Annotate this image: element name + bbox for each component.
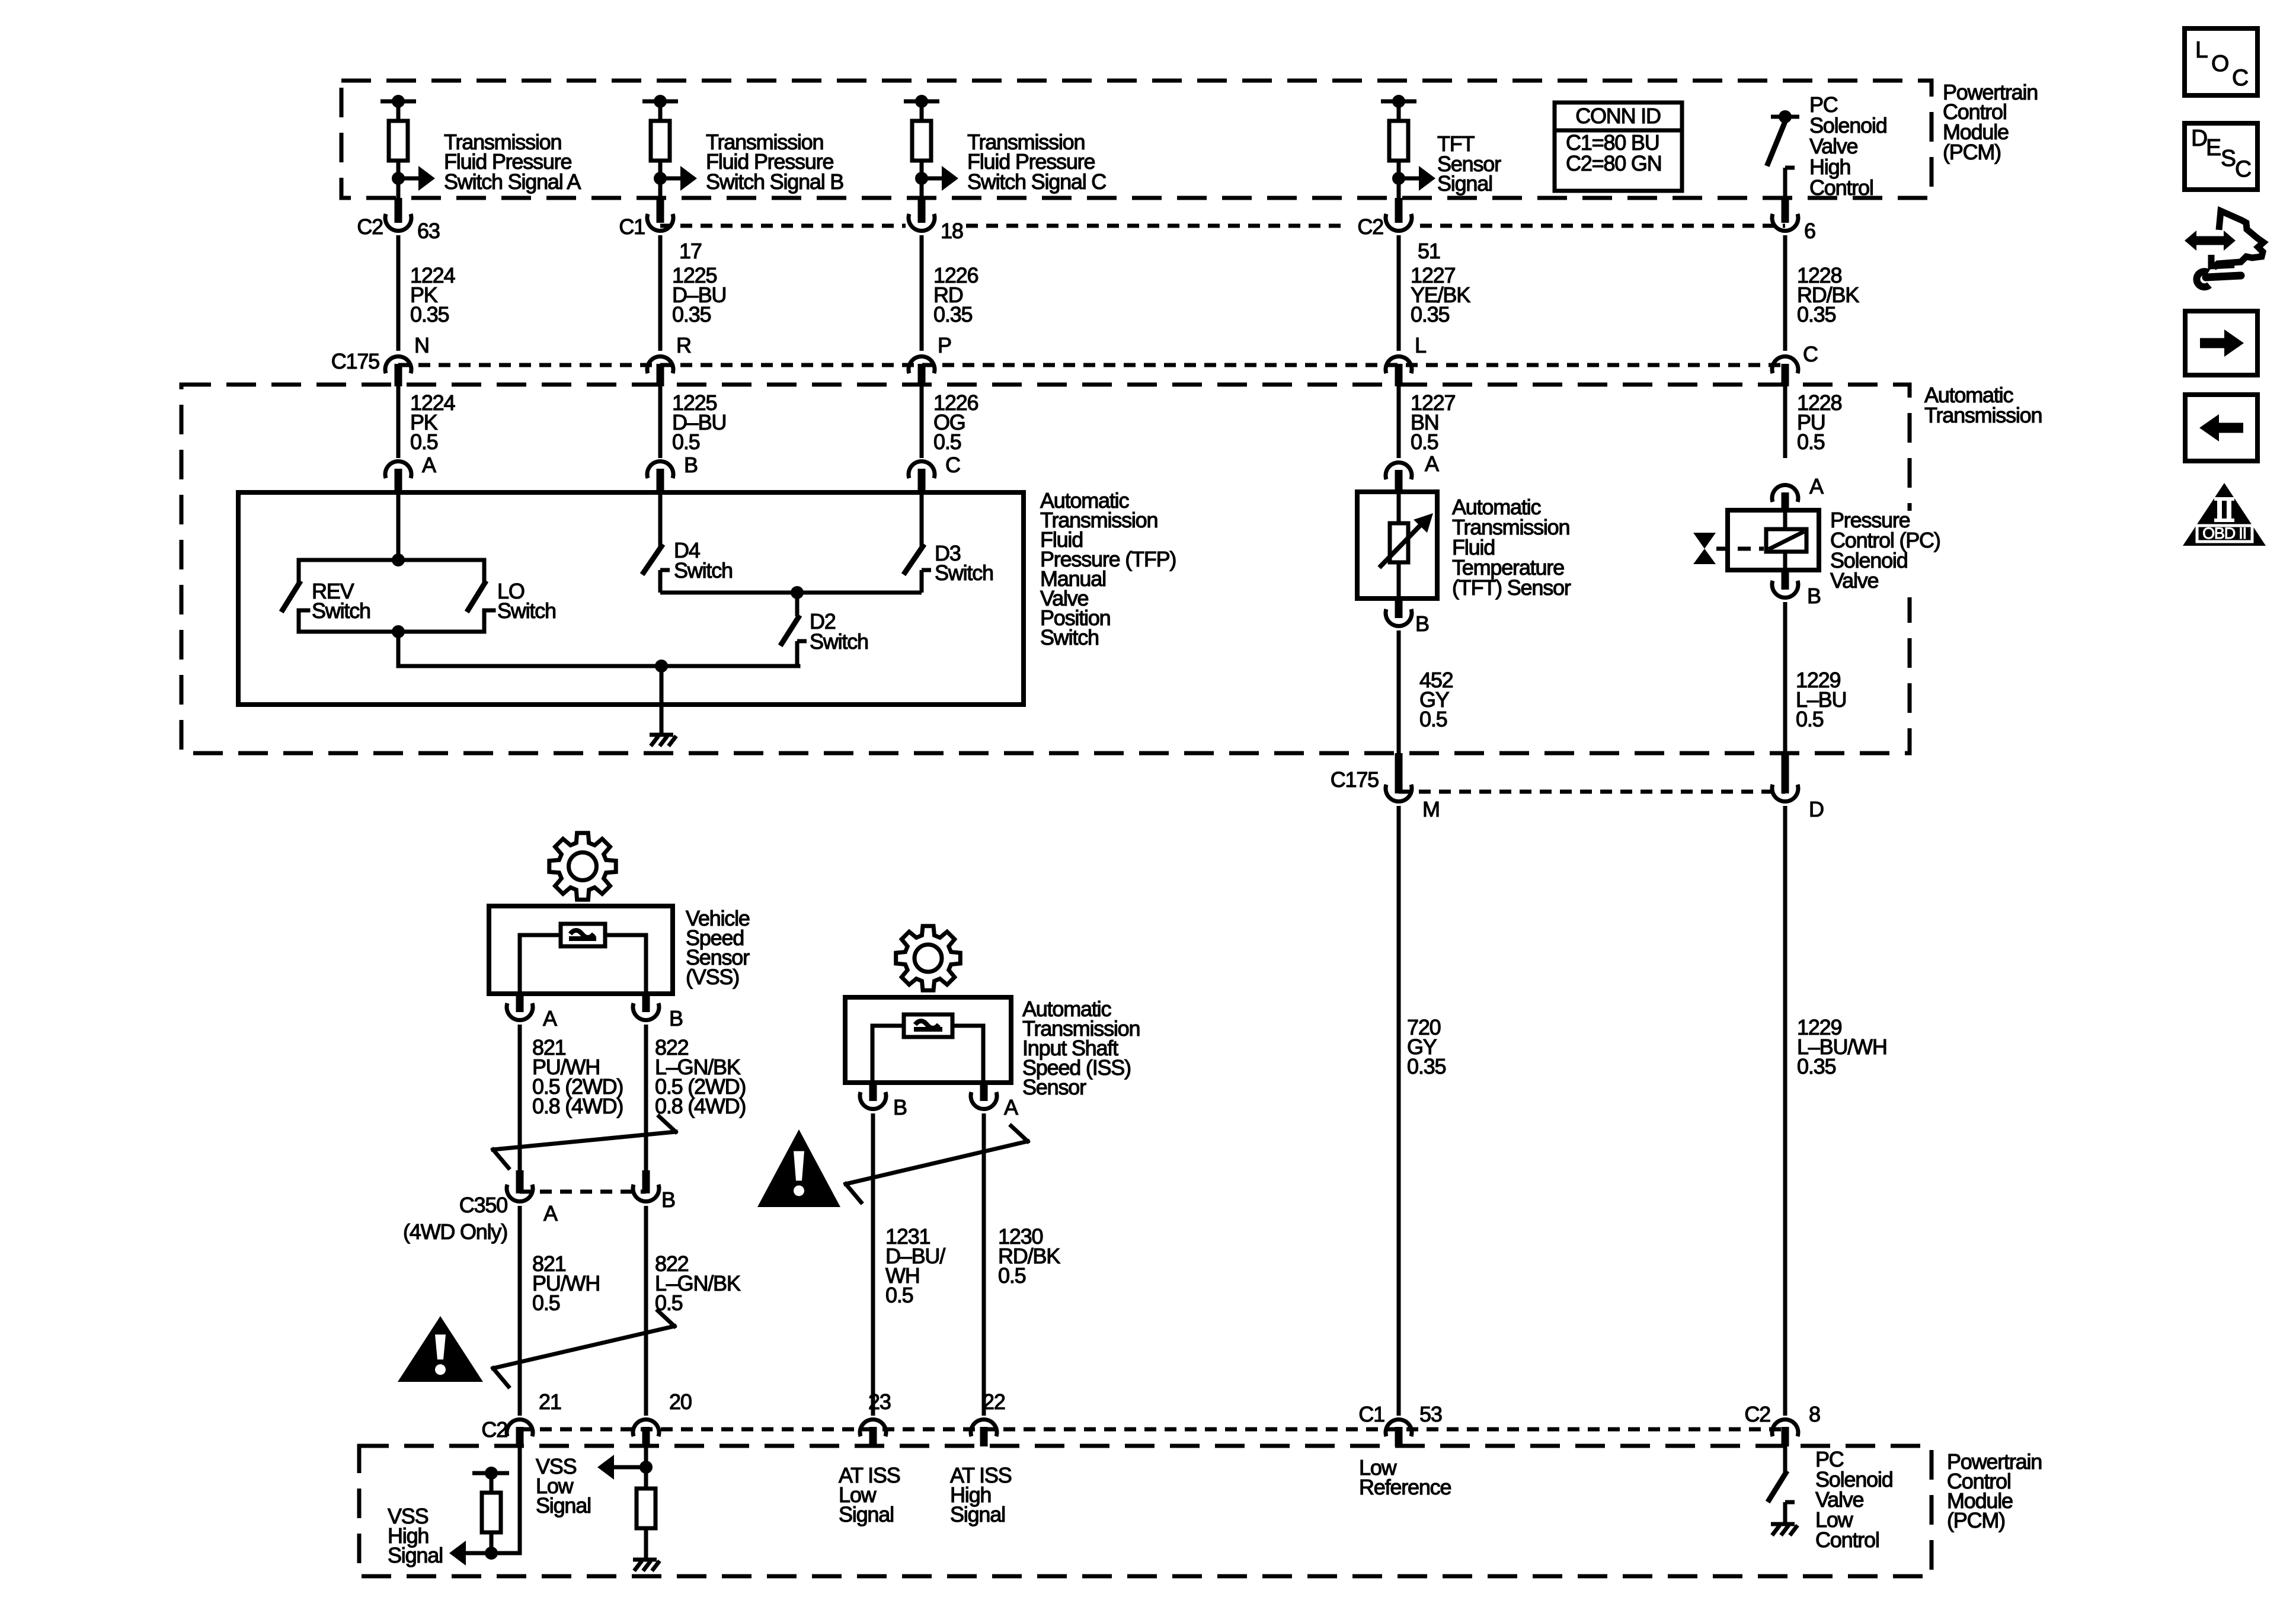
signal arrow TFP switch signal C [915,166,958,191]
icon back arrow box [2185,395,2257,461]
label PC Solenoid Valve Low Control [1815,1447,1893,1552]
PC solenoid high control driver switch [1768,110,1799,198]
signal arrow TFP switch signal A [392,166,435,191]
wire label 1225 D-BU 0.35 [672,263,726,327]
svg-text:C2: C2 [1357,215,1383,239]
svg-text:(4WD Only): (4WD Only) [403,1219,507,1244]
wire label 821 PU/WH 2WD 4WD [532,1035,623,1118]
PCM label (top right) [1943,80,2038,164]
svg-text:0.35: 0.35 [410,302,449,327]
svg-text:C1: C1 [619,215,645,239]
LO switch [468,583,494,632]
wire D4-D3 rail [660,591,922,595]
svg-text:A: A [1004,1095,1018,1119]
wire 1224 C175 to component [396,386,401,458]
svg-text:0.35: 0.35 [1411,302,1449,327]
connector PCM pin 23 [860,1390,891,1446]
svg-text:Switch Signal C: Switch Signal C [967,169,1106,194]
valve dashed link [1716,547,1764,551]
wire VSS high inside PCM [466,1446,520,1553]
label D2 Switch [810,609,868,654]
wire label 821 PU/WH 0.5 [532,1251,600,1315]
svg-text:CONN ID: CONN ID [1575,104,1661,128]
svg-text:0.5: 0.5 [1797,430,1825,454]
connector ISS pin B [860,1083,907,1119]
wire 1224 PCM to C175 [396,235,401,351]
label VSS Low Signal [536,1454,591,1518]
wire label 1229 L-BU/WH 0.35 [1797,1015,1887,1078]
label PC Solenoid Valve High Control [1809,92,1887,200]
svg-text:0.5: 0.5 [532,1291,560,1315]
svg-text:D: D [1809,797,1824,821]
connector PCM pin 6 [1772,198,1815,243]
svg-text:C: C [2235,156,2251,182]
wire 822 C350 to PCM [644,1206,648,1416]
svg-text:20: 20 [669,1390,692,1414]
label Automatic Transmission Input Shaft Speed (ISS) Sensor [1022,997,1140,1099]
svg-text:0.8 (4WD): 0.8 (4WD) [532,1094,623,1118]
wire 1230 ISS-A to PCM [982,1113,986,1416]
wire ground drop [660,666,664,734]
ground PC solenoid low [1771,1524,1798,1535]
wire 1227 C175 to component [1397,386,1401,458]
C175 connector dashed bus [398,363,1785,367]
ground VSS low [633,1560,660,1571]
svg-text:(VSS): (VSS) [686,965,739,989]
wire 452 TFT to C175 [1397,630,1401,777]
connector C175 pin M [1386,753,1440,821]
wire label 1224 PK 0.5 [410,391,455,454]
svg-text:N: N [414,333,429,357]
wire 1228 PCM to C175 [1783,235,1787,351]
wire 1225 PCM to C175 [658,235,663,351]
wire label 1231 D-BU/WH 0.5 [885,1224,945,1307]
label AT ISS High Signal [950,1463,1012,1526]
svg-text:C: C [945,453,960,477]
wire REV/LO bottom rail [299,610,484,632]
svg-text:21: 21 [539,1390,561,1414]
connector PCM pin 21 [481,1390,561,1446]
connector C350 pin B [633,1185,675,1212]
wire label 1228 PU 0.5 [1797,391,1841,454]
svg-text:0.35: 0.35 [1797,1054,1835,1078]
svg-text:A: A [543,1201,558,1225]
wire label 1225 D&#8211;BU 0.5 [672,391,726,454]
svg-text:0.5: 0.5 [410,430,438,454]
svg-text:Switch: Switch [1040,625,1099,649]
svg-text:C: C [2232,65,2248,91]
label AT ISS Low Signal [839,1463,900,1526]
svg-text:A: A [1425,452,1439,476]
signal arrow TFT sensor signal [1392,166,1435,191]
wire 720 low reference [1397,806,1401,1416]
VSS low signal arrow [597,1455,646,1480]
svg-text:C175: C175 [331,349,379,373]
VSS gear icon [549,833,616,900]
PCM label (bottom right) [1947,1449,2042,1532]
svg-text:0.35: 0.35 [933,302,972,327]
wire break symbol ISS [846,1126,1028,1202]
svg-text:C: C [1803,342,1818,366]
connector TFT pin A [1386,452,1439,492]
svg-text:0.5: 0.5 [1411,430,1438,454]
svg-text:Switch: Switch [312,598,370,623]
PCM module box (top, dashed) [341,81,1932,198]
svg-text:0.5: 0.5 [998,1263,1026,1288]
svg-text:Reference: Reference [1359,1475,1451,1499]
svg-text:C2: C2 [481,1417,507,1442]
resistor pull-up stub TFP B [642,95,678,178]
svg-text:Signal: Signal [388,1543,443,1567]
wire 1228 C175 to component [1783,386,1787,458]
label LO Switch [497,579,556,623]
svg-text:6: 6 [1804,219,1815,243]
svg-text:Signal: Signal [536,1493,591,1518]
wire TFP B to D4 [658,492,663,546]
wire label 1229 L-BU 0.5 [1796,668,1846,731]
svg-text:Switch Signal A: Switch Signal A [444,169,581,194]
label Transmission Fluid Pressure Switch Signal C [967,130,1106,194]
connector PC pin A [1772,474,1824,510]
svg-text:0.35: 0.35 [1407,1054,1446,1078]
svg-text:O: O [2211,51,2228,76]
svg-text:Control: Control [1809,175,1873,200]
label Pressure Control (PC) Solenoid Valve [1830,508,1940,597]
svg-text:B: B [1415,612,1429,636]
svg-text:C350: C350 [459,1193,507,1217]
ISS box [845,997,1011,1083]
D3 switch [905,546,931,593]
svg-text:17: 17 [679,239,702,263]
label C175 (lower) [1331,767,1379,792]
wire bottom rail to D2 rail [398,632,798,666]
resistor pull-up stub TFP C [904,95,939,178]
connector TFP pin C [909,453,960,492]
svg-text:S: S [2221,146,2236,171]
svg-text:18: 18 [941,219,963,243]
connector PCM pin 20 [633,1390,692,1446]
VSS high pull resistor [472,1467,509,1560]
label VSS High Signal [388,1504,443,1567]
icon forward arrow box [2185,311,2257,375]
svg-text:B: B [684,453,698,477]
svg-text:C2: C2 [1744,1402,1770,1426]
svg-text:Switch: Switch [674,558,733,582]
wire label 1227 YE/BK 0.35 [1411,263,1470,327]
connector ISS pin A [971,1083,1018,1119]
svg-text:0.5: 0.5 [885,1283,913,1307]
label Vehicle Speed Sensor (VSS) [686,906,750,989]
icon OBD II triangle [2183,483,2266,546]
wire 822 VSS-B to C350 [642,1025,650,1193]
PC solenoid low control driver switch [1769,1446,1795,1523]
wire 1229 PC low control [1783,806,1787,1416]
svg-text:P: P [938,333,951,357]
svg-text:0.35: 0.35 [672,302,711,327]
wire label 822 L-GN/BK 2WD 4WD [655,1035,746,1118]
svg-text:0.5: 0.5 [933,430,961,454]
svg-text:0.8 (4WD): 0.8 (4WD) [655,1094,746,1118]
svg-text:(PCM): (PCM) [1943,140,2001,164]
wire label 720 GY 0.35 [1407,1015,1446,1078]
node junction ground tap [655,660,668,673]
svg-text:(PCM): (PCM) [1947,1508,2005,1532]
wire 821 C350 to PCM [518,1206,522,1416]
connector PC pin B [1772,570,1821,608]
connector C175 pin P [909,333,951,386]
svg-text:23: 23 [868,1390,891,1414]
TFP switch box [238,492,1024,705]
Automatic Transmission box (dashed) [181,385,1910,753]
ground TFP switch [650,735,676,746]
VSS box [489,906,673,994]
warning triangle VSS [398,1316,483,1382]
wire break symbol VSS lower [493,1311,674,1387]
wire label 1226 OG 0.5 [933,391,978,454]
svg-text:A: A [1809,474,1824,498]
C350 dashed bus [520,1190,646,1194]
icon scan tool (animal head, double arrow, wrench) [2185,211,2263,287]
svg-text:B: B [669,1006,683,1030]
svg-text:C2=80 GN: C2=80 GN [1566,151,1662,175]
wire label 452 GY 0.5 [1419,668,1453,731]
label TFT sensor [1452,495,1571,600]
connector PCM pin 8 [1744,1402,1820,1446]
svg-text:L: L [2195,37,2208,63]
ISS gear icon [896,926,961,991]
D4 switch [644,546,670,593]
wire TFP C inside PCM [920,178,924,198]
connector PCM pin 22 [971,1390,1005,1446]
svg-text:Control: Control [1815,1528,1879,1552]
label Low Reference [1359,1455,1451,1499]
svg-text:E: E [2206,135,2221,161]
wire label 1230 RD/BK 0.5 [998,1224,1060,1288]
connector C175 pin R [647,333,691,386]
resistor pull-up stub TFT [1381,95,1416,178]
wire TFP C to D3 [920,492,924,546]
wire label 1226 RD 0.35 [933,263,978,327]
svg-text:51: 51 [1418,239,1440,263]
VSS low pull resistor [637,1467,655,1558]
label Transmission Fluid Pressure Switch Signal B [706,130,843,194]
svg-text:C175: C175 [1331,767,1379,792]
svg-text:8: 8 [1809,1402,1820,1426]
connector C175 pin C [1772,342,1818,386]
C175 M/D dashed bus [1399,790,1785,794]
svg-text:63: 63 [417,219,440,243]
svg-text:C1: C1 [1358,1402,1384,1426]
label Transmission Fluid Pressure Switch Signal A [444,130,581,194]
node junction REV/LO top [392,553,405,566]
ISS pickup coil [872,1014,983,1083]
svg-text:A: A [422,453,436,477]
connector PCM pin 51 [1357,198,1440,263]
wire label 1227 BN 0.5 [1411,391,1455,454]
svg-text:0.5: 0.5 [672,430,700,454]
svg-text:0.35: 0.35 [1797,302,1835,327]
svg-text:B: B [1807,584,1821,608]
valve bowtie symbol [1693,533,1716,564]
svg-text:M: M [1422,797,1440,821]
connector VSS pin B [633,994,683,1030]
VSS pickup coil [520,924,646,994]
connector TFP pin B [647,453,698,492]
connector TFT pin B [1386,598,1429,636]
svg-text:Switch: Switch [935,561,993,585]
svg-text:Switch Signal B: Switch Signal B [706,169,843,194]
connector C175 pin N [385,333,429,386]
svg-text:OBD II: OBD II [2202,524,2246,542]
svg-text:Switch: Switch [497,598,556,623]
wire label 822 L-GN/BK 0.5 [655,1251,741,1315]
wire 1231 ISS-B to PCM [871,1113,875,1416]
svg-text:Transmission: Transmission [1924,403,2042,427]
connector PCM pin 17 [619,198,701,263]
wire label 1228 RD/BK 0.35 [1797,263,1859,327]
svg-text:Signal: Signal [950,1502,1005,1526]
TFT thermistor [1381,492,1433,598]
svg-text:22: 22 [983,1390,1005,1414]
D2 switch [782,593,807,666]
wire 1225 C175 to component [658,386,663,458]
wire break symbol VSS upper [493,1116,676,1168]
signal arrow TFP switch signal B [654,166,697,191]
svg-text:0.5: 0.5 [1419,707,1447,731]
label D3 Switch [935,541,993,585]
label TFT Sensor Signal [1437,132,1501,196]
connector PCM pin 53 [1358,1402,1441,1446]
svg-text:R: R [676,333,691,357]
PC solenoid valve box [1728,510,1819,570]
wire TFP A to REV/LO rail [396,492,401,560]
wire VSS low inside PCM [639,1446,653,1474]
connector C175 pin L [1386,333,1426,386]
label Automatic Transmission [1924,383,2042,427]
label TFP switch [1040,488,1176,649]
svg-text:C2: C2 [357,215,383,239]
connector VSS pin A [507,994,557,1030]
node junction REV/LO bottom [392,625,405,638]
resistor pull-up stub TFP A [380,95,416,178]
warning triangle ISS [757,1129,840,1207]
wire 821 VSS-A to C350 [516,1025,524,1193]
label REV Switch [312,579,370,623]
svg-text:(TFT) Sensor: (TFT) Sensor [1452,575,1571,600]
PCM module box (bottom, dashed) [359,1446,1932,1576]
icon LOC box [2185,28,2257,95]
wire TFT inside PCM [1397,178,1401,198]
REV switch [283,583,308,632]
wire 1227 PCM to C175 [1397,235,1401,351]
bottom connector dashed bus [520,1427,1785,1432]
CONN ID table [1555,103,1682,191]
connector TFP pin A [385,453,436,492]
PC solenoid coil [1766,510,1806,570]
label C175 [331,349,379,373]
VSS high signal arrow [449,1541,520,1566]
svg-text:Valve: Valve [1830,568,1879,593]
wire label 1224 PK 0.35 [410,263,455,327]
wire REV/LO top rail [299,560,484,582]
connector C175 pin D [1772,753,1824,821]
svg-text:Signal: Signal [1437,171,1492,196]
wire TFP B inside PCM [658,178,663,198]
wire TFP A inside PCM [396,178,401,198]
connector PCM pin 63 [357,198,439,243]
svg-text:L: L [1415,333,1426,357]
wire 1229 PC to C175 [1783,602,1787,777]
wire 1226 C175 to component [920,386,924,458]
svg-text:Signal: Signal [839,1502,894,1526]
svg-text:0.5: 0.5 [1796,707,1824,731]
connector PCM pin 18 [909,198,963,243]
svg-text:D: D [2191,126,2207,151]
node junction D2 top [791,586,804,599]
svg-text:B: B [893,1095,907,1119]
label D4 Switch [674,538,733,582]
svg-text:Switch: Switch [810,629,868,654]
label C350 (4WD Only) [403,1193,507,1244]
svg-text:53: 53 [1419,1402,1442,1426]
svg-text:Sensor: Sensor [1022,1075,1086,1099]
icon DESC box [2185,123,2257,190]
connector C350 pin A [507,1185,558,1225]
svg-text:B: B [661,1188,675,1212]
wire 1226 PCM to C175 [920,235,924,351]
row1 connector dashed bus [660,224,1785,228]
TFT sensor box [1357,492,1437,598]
svg-text:A: A [543,1006,557,1030]
